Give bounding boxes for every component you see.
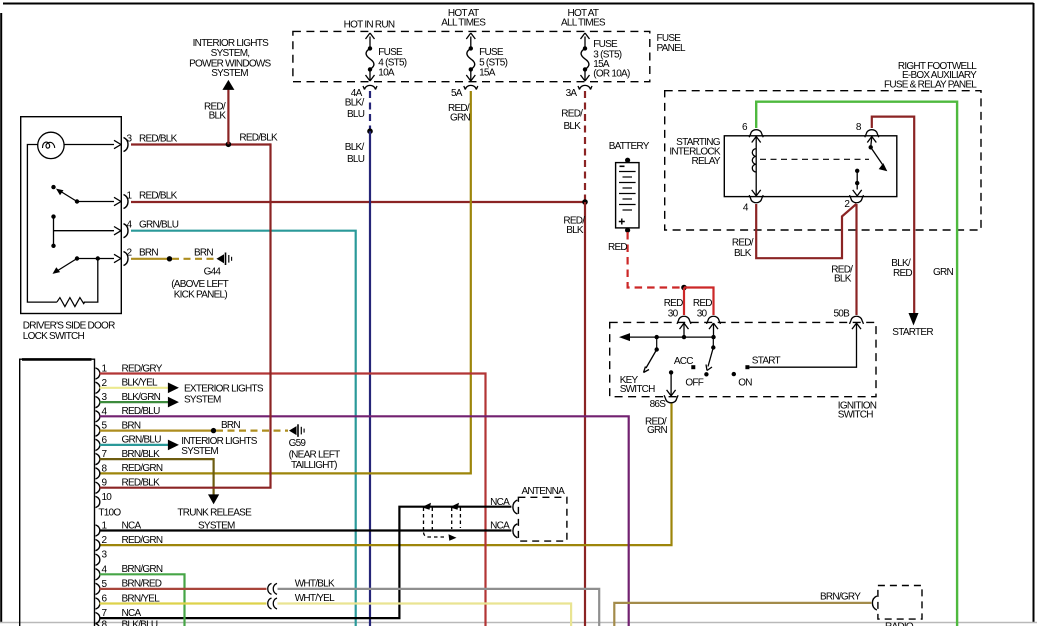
ground G44 <box>217 253 232 266</box>
T10O-a pin 4 cup <box>96 411 100 422</box>
svg-text:RELAY: RELAY <box>691 156 720 167</box>
wire RED/BLK pin 3 <box>131 143 271 145</box>
svg-text:KICK PANEL): KICK PANEL) <box>174 289 228 300</box>
ignition rotor pivot dot <box>711 345 715 349</box>
wire WHT/BLK <box>278 589 600 626</box>
relay coil <box>755 137 757 196</box>
wire RED/BLK junction to bottom <box>584 202 586 626</box>
position dot START <box>745 365 749 369</box>
wire RED/BLU pin 4 <box>100 416 629 626</box>
relay switch stub <box>871 137 872 148</box>
wire terminal 30 left to bus <box>683 323 685 337</box>
wire BRN dashed to G44 <box>172 258 216 260</box>
svg-text:BLU: BLU <box>347 109 365 120</box>
right footwell e-box auxiliary fuse and relay panel dashed box <box>665 91 981 230</box>
wire BLK/BLU dashed below fuse 4 <box>369 91 371 129</box>
arrow exterior lights 2 <box>168 397 179 408</box>
svg-text:GRN: GRN <box>933 267 954 278</box>
wire RED/BLK pin 9 up to pin3 row <box>100 143 271 487</box>
svg-text:G44: G44 <box>204 267 222 278</box>
T10O-a pin 2 cup <box>96 382 100 393</box>
svg-text:SWITCH: SWITCH <box>838 410 873 421</box>
svg-text:TRUNK RELEASE: TRUNK RELEASE <box>177 508 252 519</box>
pin 1 arrow <box>114 197 121 205</box>
svg-text:8: 8 <box>856 122 862 133</box>
node bus dot 30 right <box>711 335 715 339</box>
wire GRN from relay pin 6 <box>756 102 957 626</box>
svg-text:GRN: GRN <box>450 113 471 124</box>
terminal 30 left internal arrow <box>680 323 689 329</box>
fuse F5 exit cup <box>464 85 478 89</box>
radio cup <box>872 596 877 610</box>
svg-text:WHT/BLK: WHT/BLK <box>295 579 335 590</box>
svg-text:3A: 3A <box>566 88 578 99</box>
terminal 86S dot <box>669 370 673 374</box>
relay pin 2 cup <box>850 195 864 203</box>
wire RED dashed from battery <box>628 232 682 288</box>
lamp (courtesy light) in door lock switch <box>38 132 64 158</box>
T10O-a pin 3 cup <box>96 397 100 408</box>
svg-text:BLK: BLK <box>566 225 584 236</box>
shield arrow bottom <box>449 534 457 541</box>
shield symbol dashed loop right <box>452 508 461 530</box>
antenna bottom cup <box>513 524 518 538</box>
label RIGHT FOOTWELL E-BOX AUXILIARY FUSE & RELAY PANEL <box>884 61 977 90</box>
svg-text:RED/GRN: RED/GRN <box>122 463 163 474</box>
wire terminal 30 right to bus <box>713 323 715 337</box>
wire RED/BLK relay pin 4 to pin 2 <box>756 204 856 258</box>
T10O-a pin 1 cup <box>96 368 100 379</box>
label hot feed above fuse F4 <box>344 19 395 30</box>
svg-text:TAILLIGHT): TAILLIGHT) <box>291 460 337 471</box>
wire BRN/BLK pin 7 to trunk release <box>100 459 214 496</box>
arrow trunk release system <box>208 494 219 504</box>
arrow to starter <box>909 313 919 326</box>
svg-text:3: 3 <box>127 134 133 145</box>
antenna top cup <box>513 500 518 514</box>
terminal 30 right cup <box>707 316 721 324</box>
svg-text:ACC: ACC <box>674 356 693 367</box>
wire BRN pin 2 <box>131 258 170 260</box>
label hot feed above fuse F5 <box>441 8 486 29</box>
ignition rotor stub <box>712 337 714 347</box>
splice connector pin 6 <box>268 598 277 609</box>
svg-text:BRN: BRN <box>194 248 213 259</box>
wire switch 3 to pin 2 <box>77 258 114 260</box>
svg-text:SYSTEM: SYSTEM <box>181 446 218 457</box>
relay coil-contact dashed link <box>760 158 869 160</box>
wire RED/GRY pin 1 <box>100 374 486 626</box>
ignition bus with left arrow <box>627 336 714 338</box>
svg-text:SYSTEM: SYSTEM <box>211 68 248 79</box>
position dot ON <box>732 372 736 376</box>
svg-text:BRN: BRN <box>139 248 158 259</box>
terminal 30 right internal arrow <box>709 323 718 329</box>
svg-text:GRN/BLU: GRN/BLU <box>139 220 179 231</box>
wire NCA T10O-b pin 7 to antenna top <box>100 507 512 618</box>
T10O-a pin 9 cup <box>96 482 100 493</box>
relay switch arm <box>871 147 883 164</box>
svg-text:30: 30 <box>697 309 708 320</box>
svg-text:G59: G59 <box>289 438 307 449</box>
terminal 86S cup <box>664 395 678 403</box>
pin 1 cup <box>124 195 129 209</box>
svg-text:STARTER: STARTER <box>892 327 933 338</box>
svg-text:10: 10 <box>102 492 113 503</box>
svg-text:RED/BLK: RED/BLK <box>139 134 178 145</box>
T10O-a pin 6 cup <box>96 439 100 450</box>
T10O-a pin 7 cup <box>96 454 100 465</box>
driver's side door lock switch box <box>21 117 122 314</box>
T10O-b pin 6 cup <box>96 598 100 609</box>
wire resistor to switch 3 node <box>84 259 98 303</box>
svg-text:ANTENNA: ANTENNA <box>522 486 566 497</box>
svg-text:2: 2 <box>844 199 850 210</box>
svg-text:BRN: BRN <box>221 420 240 431</box>
svg-text:RED/GRN: RED/GRN <box>122 535 163 546</box>
svg-text:4: 4 <box>743 202 749 213</box>
key switch arm with arrowhead <box>646 350 657 369</box>
wire 86S down <box>670 372 672 396</box>
svg-text:(OR 10A): (OR 10A) <box>593 69 630 80</box>
svg-text:RED: RED <box>608 242 627 253</box>
svg-text:BATTERY: BATTERY <box>609 141 650 152</box>
node BRN splice <box>167 256 172 261</box>
label INTERIOR LIGHTS SYSTEM, POWER WINDOWS SYSTEM <box>189 38 271 79</box>
svg-text:BLK/: BLK/ <box>345 142 365 153</box>
fuse F5 symbol <box>466 33 475 81</box>
fuse F3 symbol <box>581 33 590 81</box>
svg-text:BLK: BLK <box>564 121 582 132</box>
arrow to interior lights system <box>222 80 234 90</box>
shield symbol dashed loop left <box>424 508 446 538</box>
svg-text:15A: 15A <box>479 68 496 79</box>
resistor inside door lock switch <box>57 298 85 307</box>
svg-text:SYSTEM: SYSTEM <box>184 394 221 405</box>
pin 4 cup <box>124 224 129 238</box>
wire RED/BLK up to interior lights systems <box>227 89 229 144</box>
T10O-b pin 1 cup <box>96 525 100 536</box>
fuse panel dashed box <box>293 31 650 81</box>
svg-text:50B: 50B <box>834 308 851 319</box>
svg-text:RED/: RED/ <box>561 109 583 120</box>
wire BLK/GRN pin 3 <box>100 401 169 403</box>
battery top terminal dot <box>625 158 630 163</box>
pin 4 arrow <box>114 227 121 235</box>
wire BLK/RED from relay pin 8 to starter <box>872 117 914 313</box>
radio dashed box <box>878 586 922 620</box>
svg-text:1: 1 <box>127 191 133 202</box>
terminal 86S internal arrow <box>667 390 676 396</box>
starting interlock relay box <box>724 136 897 197</box>
svg-text:ON: ON <box>738 378 752 389</box>
svg-text:PANEL: PANEL <box>657 43 686 54</box>
pin 3 cup <box>124 138 129 152</box>
fuse F4 exit cup <box>363 85 377 89</box>
node RED junction <box>681 285 687 291</box>
node bus dot 30 left <box>682 335 686 339</box>
wire RED to terminal 30 connectors <box>684 288 714 316</box>
wire BRN pin 5 <box>100 430 214 432</box>
T10O-b pin 2 cup <box>96 540 100 551</box>
wire BRN dashed to G59 <box>216 430 288 432</box>
relay pin 2 internal arrow <box>853 190 862 196</box>
svg-text:HOT IN RUN: HOT IN RUN <box>344 19 395 30</box>
fuse F4 symbol <box>366 33 375 81</box>
wire BRN/GRN pin 4 <box>100 574 185 626</box>
svg-text:BRN/GRY: BRN/GRY <box>820 592 861 603</box>
splice connector pin 5 <box>268 583 277 594</box>
svg-text:ALL TIMES: ALL TIMES <box>441 18 486 29</box>
svg-text:30: 30 <box>668 309 679 320</box>
wire switch 2 to pin 4 <box>54 230 115 232</box>
relay pin 8 internal arrow <box>867 137 876 143</box>
node bus dot key switch <box>655 335 659 339</box>
svg-text:BLU: BLU <box>347 154 365 165</box>
wire WHT/YEL <box>278 604 572 626</box>
wire RED/GRN from fuse 5 down to T10O pin 8 <box>100 91 471 473</box>
wire BRN/YEL pin 6 <box>100 602 267 604</box>
svg-text:EXTERIOR LIGHTS: EXTERIOR LIGHTS <box>184 383 264 394</box>
relay pin 6 cup <box>749 130 763 138</box>
T10O-b pin 4 cup <box>96 569 100 580</box>
svg-text:3: 3 <box>102 550 108 561</box>
svg-text:BLK/: BLK/ <box>345 98 365 109</box>
svg-text:RED: RED <box>693 298 712 309</box>
node BRN splice G59 <box>211 428 216 433</box>
T10O-a pin 10 cup <box>96 496 100 507</box>
terminal 50B cup <box>850 316 864 324</box>
svg-text:SWITCH: SWITCH <box>620 384 655 395</box>
position dot ACC <box>691 365 695 369</box>
wire BLK/BLU solid to bottom <box>369 131 371 626</box>
key switch pivot dot <box>655 347 659 351</box>
wire switch 1 to pin 1 <box>77 201 114 203</box>
antenna dashed box <box>518 497 567 541</box>
arrow interior lights <box>168 440 179 451</box>
connector T10O body <box>20 359 95 626</box>
shield arrow left <box>422 503 432 510</box>
svg-text:2: 2 <box>127 248 133 259</box>
relay pin 4 cup <box>749 195 763 203</box>
ignition switch dashed box <box>610 322 876 396</box>
svg-text:RED/: RED/ <box>732 238 754 249</box>
label STARTING INTERLOCK RELAY <box>669 137 721 167</box>
relay pin 4 internal arrow <box>752 190 761 196</box>
svg-text:4: 4 <box>127 220 133 231</box>
svg-text:FUSE: FUSE <box>593 39 618 50</box>
relay switch fixed contact dot <box>869 145 873 149</box>
switch 3 pivot dot <box>75 256 79 260</box>
svg-text:10A: 10A <box>378 68 395 79</box>
svg-text:RED/BLK: RED/BLK <box>239 133 278 144</box>
svg-text:START: START <box>752 355 781 366</box>
svg-text:BLK/BLU: BLK/BLU <box>122 619 158 626</box>
T10O-a pin 8 cup <box>96 468 100 479</box>
svg-text:DRIVER'S SIDE DOOR: DRIVER'S SIDE DOOR <box>23 321 115 332</box>
svg-text:GRN: GRN <box>647 425 668 436</box>
T10O-b pin 7 cup <box>96 613 100 624</box>
wire BRN/RED pin 5 <box>100 588 267 590</box>
label hot feed above fuse F3 <box>561 8 606 29</box>
shield arrow right <box>450 503 460 510</box>
svg-text:FUSE: FUSE <box>378 47 403 58</box>
T10O-b pin 5 cup <box>96 583 100 594</box>
svg-text:LOCK SWITCH: LOCK SWITCH <box>23 331 85 342</box>
position dot OFF <box>704 372 708 376</box>
svg-text:BLK: BLK <box>834 274 852 285</box>
wire BLK/YEL pin 2 <box>100 387 169 389</box>
T10O-b pin 8 cup <box>96 624 100 626</box>
svg-text:BLK: BLK <box>734 248 752 259</box>
wire START to 50B <box>749 323 856 367</box>
T10O-a pin 5 cup <box>96 425 100 436</box>
switch 1 arm with arrowhead <box>56 189 77 202</box>
svg-text:FUSE & RELAY PANEL: FUSE & RELAY PANEL <box>884 79 977 90</box>
svg-text:86S: 86S <box>650 399 667 410</box>
relay pin 2 contact dot lower <box>855 181 859 185</box>
wire NCA T10O-b pin 1 to antenna bottom <box>100 529 512 531</box>
terminal 30 left cup <box>677 316 691 324</box>
wire RED/BLK pin 1 to fuse3 node <box>131 201 585 203</box>
node BLK/BLU splice <box>367 128 373 134</box>
wire lamp to pin 3 <box>64 144 114 146</box>
svg-text:WHT/YEL: WHT/YEL <box>295 593 335 604</box>
switch 2 contacts <box>51 214 55 248</box>
arrow exterior lights 1 <box>168 383 179 394</box>
battery <box>616 163 639 228</box>
pin 2 cup <box>124 252 129 266</box>
relay pin 2 contact stub <box>856 171 858 190</box>
wire BRN/GRY to radio <box>614 603 871 626</box>
ignition rotor arm with arrowhead <box>708 348 713 367</box>
svg-text:ALL TIMES: ALL TIMES <box>561 18 606 29</box>
relay pin 2 contact dot upper <box>855 169 859 173</box>
relay pin 8 cup <box>865 130 879 138</box>
wire GRN/BLU pin 6 <box>100 444 169 446</box>
svg-text:BLK: BLK <box>209 110 227 121</box>
ground G59 <box>289 424 304 437</box>
switch 3 arm with arrowhead <box>53 259 78 274</box>
node junction fuse3 / pin1 wire <box>582 199 588 205</box>
svg-text:T10O: T10O <box>98 508 121 519</box>
node junction pin3 / interior lights feed <box>226 142 232 148</box>
pin 2 arrow <box>114 254 121 262</box>
wire GRN/BLU pin 4 <box>131 231 356 626</box>
wire RED/BLK relay pin 2 to 50B <box>855 204 857 315</box>
key switch stub <box>656 337 658 349</box>
pin 3 arrow <box>114 140 121 148</box>
fuse F3 exit cup <box>578 85 592 89</box>
wire RED/BLK dashed below fuse 3 <box>584 91 586 200</box>
switch 3 node dot <box>96 256 100 260</box>
terminal 50B internal arrow <box>852 323 861 329</box>
svg-text:6: 6 <box>742 122 748 133</box>
relay pin 6 internal arrow <box>752 137 761 143</box>
battery bottom terminal dot <box>625 228 630 233</box>
relay switch arm arrowhead <box>879 163 888 171</box>
T10O-b pin 3 cup <box>96 554 100 565</box>
svg-text:OFF: OFF <box>685 378 703 389</box>
svg-text:FUSE: FUSE <box>479 47 504 58</box>
switch 1 pivot dot <box>75 199 79 203</box>
wire lamp left rail to resistor <box>27 145 57 303</box>
svg-text:RED: RED <box>893 268 912 279</box>
svg-text:(NEAR LEFT: (NEAR LEFT <box>289 449 340 460</box>
svg-text:RADIO: RADIO <box>885 622 914 626</box>
switch 1 contact dot <box>51 185 55 189</box>
svg-text:RED: RED <box>664 298 683 309</box>
wire RED/GRN from 86S to T10O-2 pin 2 <box>100 404 672 546</box>
switch 2 bar <box>53 217 55 246</box>
svg-text:5A: 5A <box>451 88 463 99</box>
svg-text:RED/BLK: RED/BLK <box>139 191 178 202</box>
